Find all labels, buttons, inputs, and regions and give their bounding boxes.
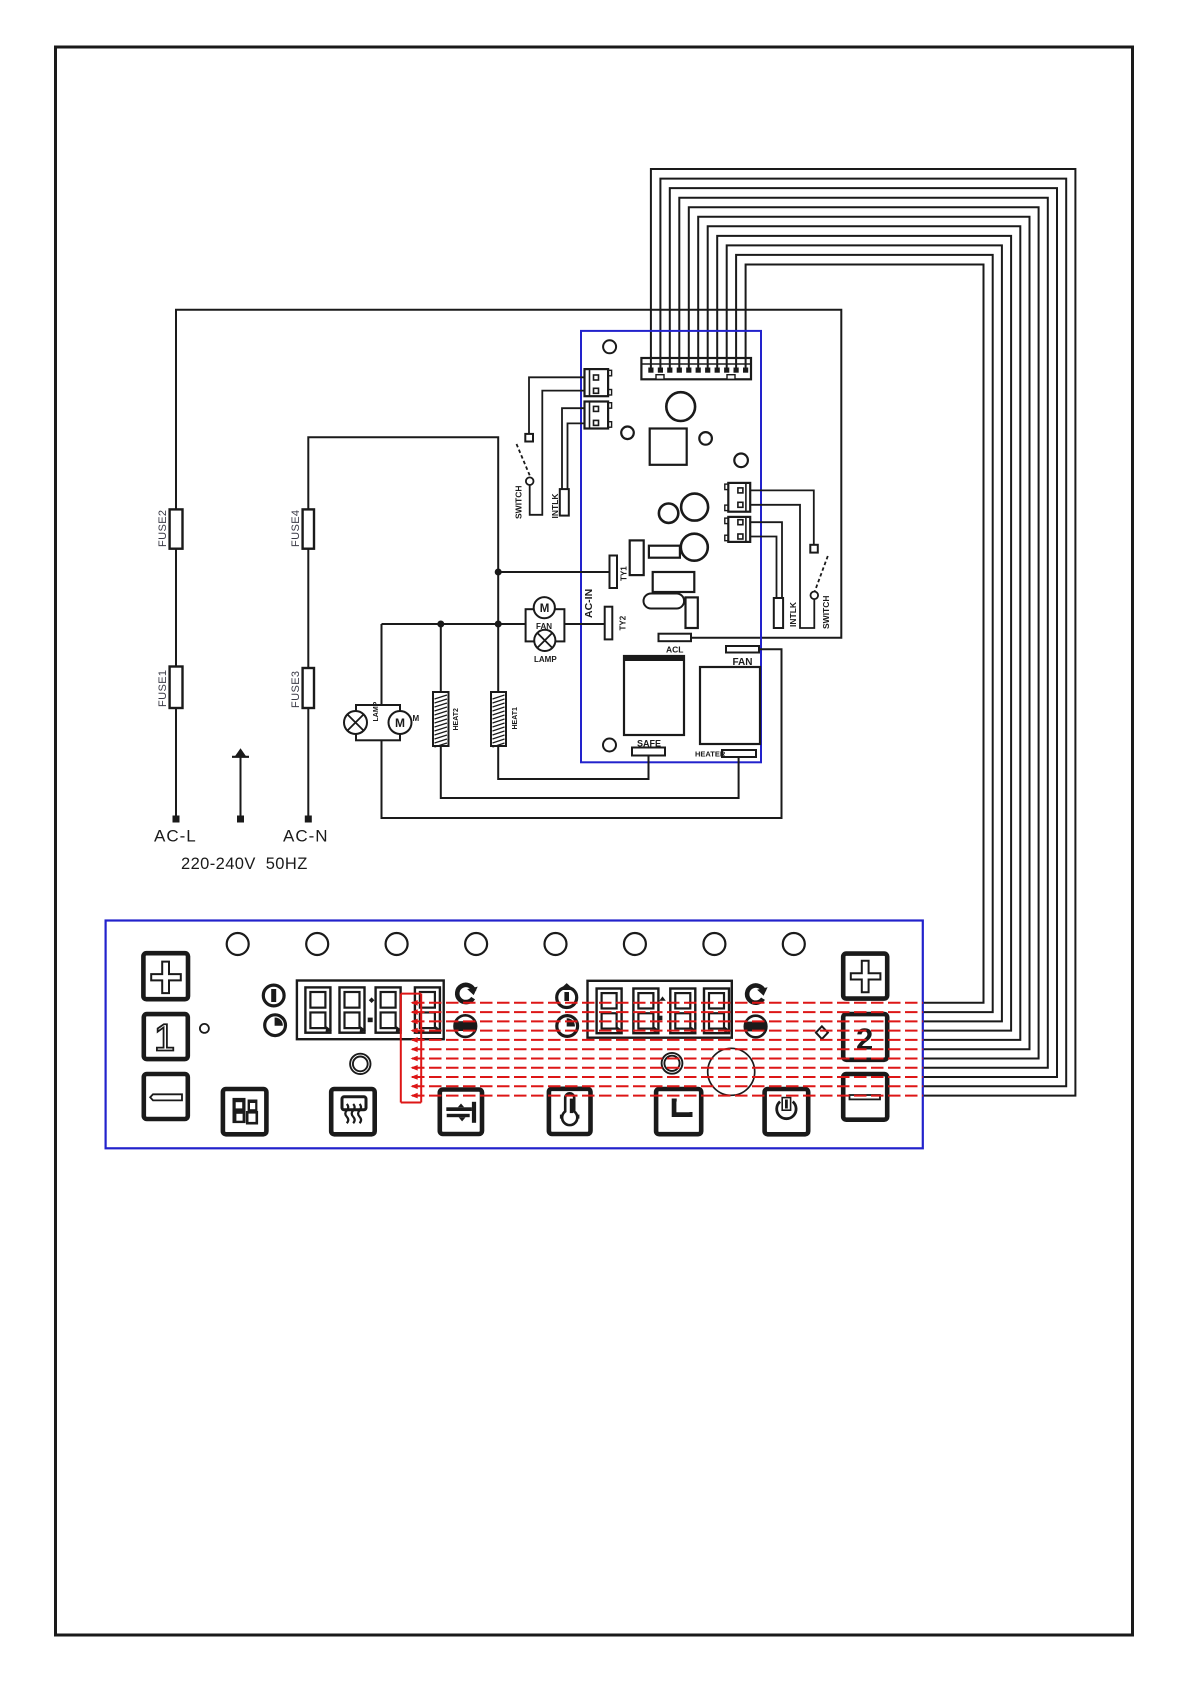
node AC-N terminal dot [305, 816, 312, 823]
wire rail to fan-lamp pair [382, 623, 526, 625]
capacitor C4 [734, 454, 748, 468]
display DS2 digit 4 (8) [704, 989, 729, 1034]
heating element HEAT1 [491, 692, 506, 746]
button quick-start (arrow icon) [440, 1090, 482, 1135]
display DS1 digit 4 (8) [415, 987, 440, 1032]
connector CN3 pins [594, 406, 599, 411]
wire rail down to lamp-motor bracket [381, 624, 383, 705]
wire node down to lamp/heater rail [497, 572, 499, 624]
svg-text:HEAT1: HEAT1 [512, 707, 519, 730]
display DS1 frame [297, 981, 444, 1040]
connector CN4 body [728, 483, 750, 512]
capacitor C1 [666, 392, 695, 421]
connector CN2 pins [594, 375, 599, 380]
wire ribbon cable conductor 3 (CN1 pin 3 to display board) [670, 188, 1057, 1077]
LED ring D3 [662, 1053, 683, 1074]
connector CN1 pin terminals (11 pins) [648, 368, 748, 373]
svg-text:M: M [395, 716, 405, 730]
button MINUS left [144, 1074, 188, 1119]
wire red ribbon trace 8 (display board) [412, 1067, 923, 1069]
svg-text:LAMP: LAMP [373, 701, 380, 721]
button program (grid icon) [223, 1089, 267, 1134]
switch SW1 lever (open) [517, 444, 531, 478]
node ground terminal dot [237, 816, 244, 823]
wire red ribbon trace 9 (display board) [412, 1076, 923, 1078]
LED diamond D4 [816, 1026, 828, 1039]
wire K1 bottom to HEAT2 [441, 746, 739, 798]
button 1 left [144, 1014, 188, 1059]
svg-text:INTLK: INTLK [788, 601, 798, 627]
wire AC-L lead (terminal up to FUSE1) [175, 708, 177, 819]
display DS1 colon [369, 997, 375, 1003]
display DS1 digit 3 (8) [376, 987, 401, 1032]
svg-text:SWITCH: SWITCH [514, 485, 524, 519]
wire between FUSE3 and FUSE4 [307, 549, 309, 668]
wire AC-N lead (terminal up to FUSE3) [307, 708, 309, 819]
node junction dot at x498 y624 [495, 621, 501, 627]
wire between FUSE1 and FUSE2 [175, 549, 177, 667]
LED ring D2 [350, 1054, 370, 1074]
thermostat TC1 body [560, 489, 569, 515]
varistor TY1 body [610, 556, 618, 589]
fuse FUSE3 [303, 668, 314, 708]
wire ribbon cable conductor 4 (CN1 pin 4 to display board) [679, 198, 1048, 1068]
connector CN1 body [641, 358, 751, 379]
wire AC-N feed to TY1 [498, 571, 609, 573]
LED D1 [200, 1024, 209, 1033]
wire SW1 pivot back to CN2 pin2 [530, 391, 585, 515]
fan-lamp parallel bracket [526, 609, 565, 641]
wire CN4 pin1 to SW2 terminal [750, 490, 814, 544]
svg-text:LAMP: LAMP [534, 655, 557, 664]
svg-text:TY1: TY1 [620, 566, 629, 581]
varistor TY2 body [605, 607, 613, 640]
icon clock (left of display 2) [557, 1016, 578, 1037]
button 2 right [843, 1014, 887, 1060]
switch SW1 pivot contact [526, 477, 534, 485]
svg-text:FUSE2: FUSE2 [157, 510, 169, 547]
wire red ribbon trace 4 (display board) [412, 1030, 923, 1032]
connector CN3 body [585, 402, 609, 429]
wire SW2 pivot back to CN4 pin2 [750, 505, 814, 628]
display DS2 colon [659, 996, 666, 1000]
button PLUS right [843, 954, 887, 999]
wire red ribbon trace 3 (display board) [412, 1020, 923, 1022]
capacitor C2 [621, 427, 634, 440]
component R1 snubber body [653, 572, 695, 592]
button power (icon) [765, 1089, 809, 1134]
wire CN2 pin1 to SW1 terminal [529, 377, 585, 433]
svg-text:SWITCH: SWITCH [821, 595, 831, 629]
svg-text:2: 2 [856, 1021, 873, 1056]
connector CN5 body [728, 517, 750, 542]
wire CN5 pin2 to thermostat TC2 [750, 537, 776, 599]
wire red ribbon trace 11 (display board) [412, 1095, 923, 1097]
connector K1 bottom [722, 750, 756, 757]
motor M2 fan motor [534, 597, 555, 618]
wire ribbon cable conductor 7 (CN1 pin 7 to display board) [708, 226, 1021, 1040]
icon rotate (right of display 2) [747, 985, 764, 1002]
wire HEAT2 top leg [440, 624, 442, 692]
svg-text:INTLK: INTLK [550, 493, 560, 519]
connector CN4 pins [738, 488, 743, 493]
red bracket around ribbon crossover [400, 994, 402, 1103]
terminal SW2 fixed contact [810, 545, 818, 553]
svg-text:FAN: FAN [536, 622, 552, 631]
wire AC-N net: up, across, down to node at TY1 feed [308, 437, 498, 572]
node AC-L terminal dot [173, 816, 180, 823]
lamp LP2 [534, 630, 555, 651]
svg-text:FUSE3: FUSE3 [290, 671, 302, 708]
component X2 horizontal body [649, 546, 680, 558]
resistor ACL body [659, 634, 692, 642]
component C8 film cap (stadium) [644, 594, 685, 609]
fuse FUSE1 [170, 667, 183, 709]
switch SW2 lever (open) [815, 556, 828, 591]
icon number-1 ring (left of display 1) [263, 985, 284, 1006]
svg-text:TY2: TY2 [619, 615, 628, 630]
relay module K1 body [700, 667, 760, 744]
button temperature (thermometer icon) [549, 1089, 591, 1134]
button PLUS left [143, 953, 188, 999]
switch SW2 pivot contact [811, 592, 819, 600]
wire ribbon cable conductor 9 (CN1 pin 9 to display board) [727, 245, 1002, 1021]
display DS2 frame [588, 981, 732, 1038]
icon alarm (left of display 2) [557, 988, 577, 1008]
wire CN5 pin1 to thermostat TC2 [750, 522, 782, 598]
capacitor C7 [681, 534, 708, 561]
wire ribbon cable conductor 10 (CN1 pin 10 to display board) [736, 255, 993, 1012]
wire AC-L net: up left side, across top, down right side to ACL input [176, 310, 841, 638]
lamp LP1 [344, 711, 367, 734]
wire T1 output to heater rail [498, 746, 648, 779]
svg-text:M: M [540, 603, 550, 615]
component X1 vertical body [630, 540, 644, 575]
display DS1 digit 2 (8) [340, 987, 365, 1032]
connector K1 top (FAN out) [726, 646, 759, 653]
svg-text:1: 1 [154, 1018, 175, 1060]
button timer (clock-L icon) [656, 1089, 701, 1134]
connector T1 output [632, 748, 665, 756]
wire CN3 pin2 to thermostat TC1 [568, 423, 585, 489]
wire ribbon cable conductor 11 (CN1 pin 11 to display board) [746, 265, 984, 1003]
display DS1 digit 1 (8) [305, 987, 330, 1032]
node junction dot at x440 y624 [438, 621, 444, 627]
wire ribbon cable conductor 2 (CN1 pin 2 to display board) [660, 179, 1066, 1087]
svg-text:FUSE4: FUSE4 [290, 510, 302, 547]
wire ribbon cable conductor 6 (CN1 pin 6 to display board) [698, 217, 1029, 1049]
wire red ribbon trace 10 (display board) [412, 1085, 923, 1087]
capacitor C6 [681, 494, 708, 521]
wire red ribbon trace 6 (display board) [412, 1048, 923, 1050]
lamp-motor parallel bracket [356, 705, 400, 740]
button MINUS right [843, 1074, 887, 1120]
connector CN2 body [585, 369, 609, 396]
svg-text:AC-N: AC-N [283, 827, 329, 846]
node junction dot at x498 y572 [495, 569, 501, 575]
wire ribbon cable conductor 1 (CN1 pin 1 to display board) [651, 169, 1076, 1096]
main control PCB outline [581, 331, 761, 762]
display DS2 digit 3 (8) [670, 989, 695, 1034]
motor M1 turntable [389, 711, 412, 734]
wire ribbon cable conductor 5 (CN1 pin 5 to display board) [689, 207, 1039, 1058]
svg-text:AC-IN: AC-IN [583, 589, 595, 618]
icon rotate (right of display 1) [457, 985, 474, 1002]
svg-text:HEAT2: HEAT2 [453, 708, 460, 731]
display board outline [106, 921, 923, 1149]
wire bracket to TY2 [564, 623, 604, 625]
connector CN5 pins [738, 520, 743, 525]
wire red ribbon trace 7 (display board) [412, 1058, 923, 1060]
wire FAN out to lamp/motor branch [382, 649, 782, 818]
wire red ribbon trace 2 (display board) [412, 1011, 923, 1013]
svg-text:ACL: ACL [666, 645, 683, 655]
wire ribbon cable conductor 8 (CN1 pin 8 to display board) [717, 236, 1011, 1031]
fuse FUSE4 [303, 509, 314, 548]
capacitor C3 [699, 432, 712, 445]
wire red ribbon trace 5 (display board) [412, 1039, 923, 1041]
knob circle [708, 1048, 755, 1095]
display DS2 digit 1 (8) [597, 989, 622, 1034]
terminal SW1 fixed contact [525, 434, 533, 442]
wire red ribbon trace 1 (display board) [412, 1002, 923, 1004]
capacitor C5 [659, 504, 678, 523]
mounting hole bottom-left [603, 739, 616, 752]
mounting hole top-left [603, 340, 616, 353]
icon grill (right of display 1) [455, 1015, 477, 1037]
svg-text:M: M [413, 714, 420, 723]
ground symbol [236, 750, 244, 756]
fuse FUSE2 [170, 509, 183, 548]
display board mounting holes (8) [227, 933, 805, 955]
wire HEAT1 top leg [497, 624, 499, 692]
heating element HEAT2 [433, 692, 449, 746]
relay RL1 body [650, 429, 687, 465]
icon grill (right of display 2) [745, 1016, 767, 1038]
thermostat TC2 body [774, 598, 783, 628]
wire CN3 pin1 to thermostat TC1 [562, 408, 585, 489]
svg-text:220-240V 50HZ: 220-240V 50HZ [181, 855, 308, 873]
svg-text:AC-L: AC-L [154, 827, 197, 846]
component X3 vertical body [686, 597, 698, 628]
icon clock (left of display 1) [265, 1015, 286, 1036]
svg-text:FUSE1: FUSE1 [157, 670, 169, 707]
button defrost (icon) [331, 1089, 375, 1134]
display DS2 digit 2 (8) [633, 989, 658, 1034]
transformer T1 body [624, 656, 684, 735]
